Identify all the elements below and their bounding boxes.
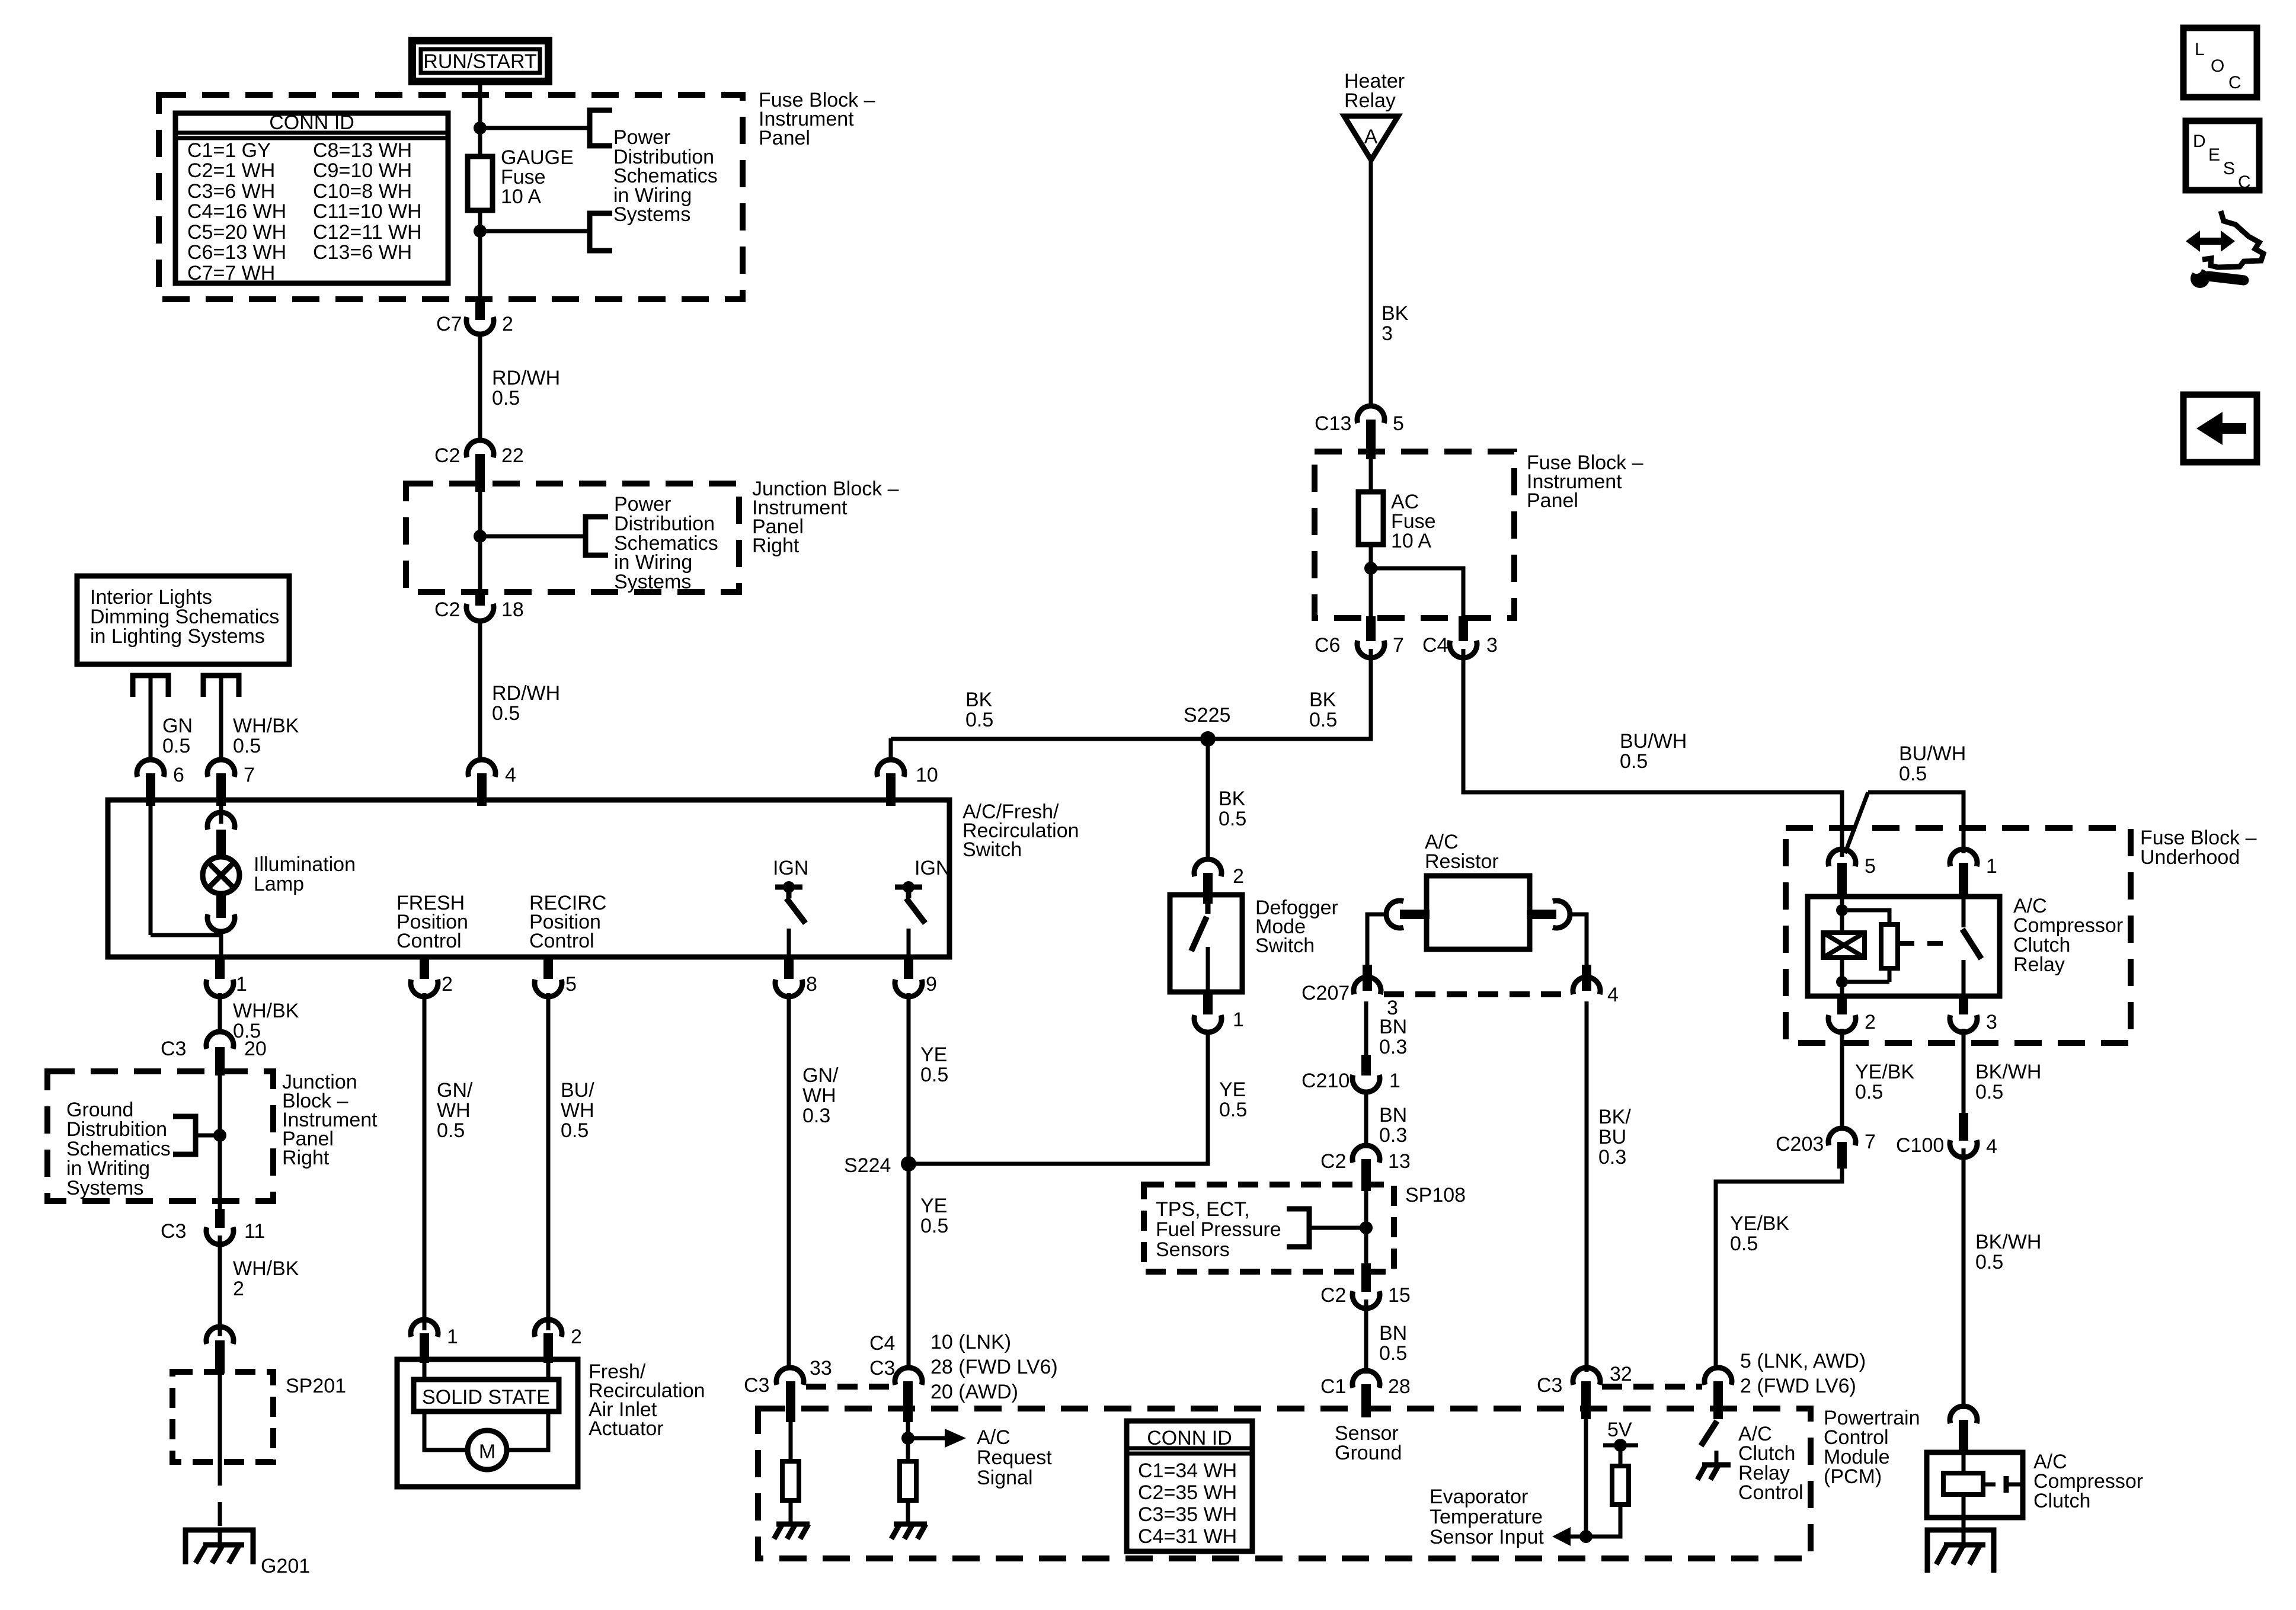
wire S224 to defogger pin 1 (909, 1031, 1208, 1164)
connector C3 pin 11 (206, 1227, 234, 1244)
connector pin 7 (207, 760, 235, 777)
junction S225 (1200, 731, 1216, 747)
svg-text:BU/WH: BU/WH (1620, 730, 1687, 753)
wire BK 0.5 defogger from S225 (1206, 739, 1210, 859)
heater relay triangle A (1344, 116, 1398, 160)
svg-text:2: 2 (502, 313, 513, 335)
svg-text:WH/BK: WH/BK (233, 1000, 299, 1022)
stub above pin 4 (1582, 965, 1591, 991)
svg-text:BK: BK (1309, 689, 1336, 711)
connector C100 pin 4 (1950, 1140, 1977, 1157)
svg-text:2: 2 (1865, 1011, 1876, 1033)
svg-text:Systems: Systems (614, 571, 691, 593)
svg-text:G201: G201 (261, 1555, 310, 1577)
svg-text:4: 4 (1607, 984, 1619, 1006)
svg-text:C6: C6 (1315, 634, 1340, 657)
svg-text:C3=35 WH: C3=35 WH (1138, 1503, 1237, 1526)
svg-text:28: 28 (1388, 1375, 1411, 1398)
svg-text:C1=1 GY: C1=1 GY (187, 139, 271, 162)
TPS dashed box (1144, 1185, 1394, 1272)
svg-text:0.5: 0.5 (1730, 1233, 1758, 1255)
SOLID STATE box (414, 1379, 559, 1411)
dashed jumper C207 to pin 4 (1384, 991, 1571, 997)
svg-text:C3: C3 (744, 1374, 769, 1397)
svg-text:Temperature: Temperature (1430, 1506, 1543, 1528)
svg-text:5: 5 (565, 973, 577, 996)
svg-text:C5=20 WH: C5=20 WH (187, 221, 286, 244)
svg-text:0.5: 0.5 (437, 1119, 465, 1142)
icon car adjust with wrench (2186, 211, 2263, 288)
diagonal jog pin5 to second BU/WH run (1845, 792, 1868, 853)
A/C request arrow (908, 1429, 966, 1448)
node RUN/START (412, 41, 549, 82)
svg-text:WH/BK: WH/BK (233, 715, 299, 737)
stub above C100 (1959, 1113, 1968, 1141)
svg-text:C11=10 WH: C11=10 WH (313, 200, 422, 223)
svg-text:C2=1 WH: C2=1 WH (187, 159, 275, 182)
svg-text:Switch: Switch (962, 838, 1022, 861)
svg-text:M: M (479, 1441, 495, 1463)
evap arrow (1552, 1527, 1586, 1546)
dashed jumper C3 32 to PCM pin (1602, 1384, 1702, 1390)
svg-text:Resistor: Resistor (1425, 850, 1499, 873)
svg-text:0.5: 0.5 (965, 709, 993, 731)
svg-text:0.5: 0.5 (1899, 763, 1927, 785)
svg-text:10 A: 10 A (501, 185, 541, 208)
wire BN 0.5 (1364, 1299, 1368, 1374)
wire BK/WH 0.5 down to clutch (1962, 1148, 1966, 1409)
svg-text:7: 7 (1393, 634, 1404, 657)
connector C13 pin 5 (1357, 406, 1384, 423)
svg-text:BK/: BK/ (1598, 1106, 1631, 1128)
svg-text:Underhood: Underhood (2140, 846, 2240, 869)
svg-text:10 (LNK): 10 (LNK) (930, 1331, 1011, 1353)
svg-text:33: 33 (810, 1357, 832, 1379)
stub below PCM clutch pin (1713, 1381, 1723, 1419)
svg-text:(PCM): (PCM) (1824, 1465, 1882, 1488)
IGN switch 2 (895, 857, 950, 957)
svg-text:Sensors: Sensors (1156, 1238, 1230, 1261)
dashed jumper C3 33 to C4/C3 (806, 1384, 892, 1390)
A/C resistor right pin arc (1553, 901, 1570, 928)
A/C clutch relay control switch (1701, 1421, 1717, 1446)
junction dot AC fuse (1364, 562, 1377, 575)
fuse block underhood dashed box (1786, 828, 2131, 1043)
stub below C2 22 (475, 454, 485, 492)
svg-text:BK/WH: BK/WH (1975, 1231, 2041, 1253)
connector C4/C3 at pin9 bottom (895, 1368, 922, 1385)
relay resistor (1881, 924, 1898, 968)
lamp bottom arc (207, 914, 235, 932)
svg-text:0.5: 0.5 (920, 1215, 948, 1237)
svg-text:S225: S225 (1184, 704, 1230, 726)
svg-text:9: 9 (926, 973, 937, 996)
svg-text:20: 20 (244, 1038, 267, 1060)
relay coil box with X (1823, 933, 1865, 958)
resistor PCM 2 (900, 1461, 916, 1500)
junction dot in junction block (474, 530, 487, 543)
svg-text:Relay: Relay (2013, 953, 2065, 976)
stub below C13 5 (1366, 420, 1376, 459)
svg-text:0.5: 0.5 (1219, 808, 1246, 830)
svg-text:SOLID STATE: SOLID STATE (422, 1386, 550, 1409)
stub above C207 (1363, 965, 1372, 991)
svg-text:TPS, ECT,: TPS, ECT, (1156, 1198, 1250, 1221)
svg-text:C4=16 WH: C4=16 WH (187, 200, 286, 223)
svg-text:Panel: Panel (1527, 489, 1578, 512)
svg-text:SP201: SP201 (286, 1375, 346, 1397)
interior lights box (77, 576, 289, 664)
connector relay pin 1 (1950, 849, 1977, 866)
svg-text:RD/WH: RD/WH (492, 367, 560, 389)
connector C7 pin 2 (466, 317, 494, 334)
actuator outer box (397, 1359, 578, 1487)
wire YE/BK jog left down to PCM (1716, 1164, 1842, 1366)
stub defogger pin 1 (1203, 992, 1213, 1014)
svg-text:10: 10 (916, 764, 938, 786)
svg-text:IGN: IGN (773, 857, 808, 879)
svg-text:O: O (2211, 56, 2224, 76)
defogger mode switch box (1170, 895, 1242, 992)
gauge fuse 10A (468, 156, 493, 210)
svg-text:0.5: 0.5 (1975, 1081, 2003, 1103)
connector defogger pin 2 (1194, 859, 1221, 876)
wire through ground dist box (218, 1071, 222, 1216)
svg-text:Request: Request (977, 1446, 1052, 1469)
svg-text:Panel: Panel (759, 127, 810, 149)
svg-text:0.5: 0.5 (561, 1119, 589, 1142)
svg-text:0.5: 0.5 (1855, 1081, 1883, 1103)
svg-text:L: L (2195, 40, 2205, 59)
svg-text:1: 1 (1389, 1070, 1400, 1092)
junction dot SP108 (1360, 1221, 1373, 1234)
svg-text:C3: C3 (869, 1357, 895, 1379)
svg-text:YE: YE (1219, 1078, 1246, 1101)
svg-text:0.5: 0.5 (1219, 1099, 1247, 1121)
wire C207 up to resistor (1367, 914, 1387, 978)
wire BN 0.3 C207 to C210 (1364, 1001, 1368, 1067)
wire BU/WH 0.5 pin5 to actuator (546, 993, 551, 1330)
pin 10 wire from BK line (889, 738, 893, 761)
svg-text:SP108: SP108 (1405, 1184, 1466, 1206)
connector pin 4 resistor (1573, 977, 1600, 994)
svg-text:Actuator: Actuator (589, 1417, 664, 1440)
svg-text:C: C (2238, 172, 2251, 192)
wire through TPS box (1364, 1188, 1368, 1268)
stub pin 2 below box (420, 957, 429, 979)
svg-text:0.5: 0.5 (1975, 1251, 2003, 1273)
wire through SP201 (218, 1374, 222, 1462)
connector C203 pin 7 (1828, 1128, 1856, 1145)
wire right pin down to pin 4 (1569, 914, 1587, 978)
svg-text:C12=11 WH: C12=11 WH (313, 221, 422, 244)
svg-text:C7=7 WH: C7=7 WH (187, 262, 275, 284)
connector pin 4 of switch (468, 760, 495, 777)
ground clutch (1927, 1530, 1994, 1573)
svg-text:2: 2 (233, 1278, 244, 1300)
svg-text:5: 5 (1865, 855, 1876, 878)
connector pin 10 (877, 760, 904, 777)
connector C207 pin 3 (1354, 977, 1381, 994)
junction dot evap (1579, 1530, 1593, 1543)
svg-text:in Lighting Systems: in Lighting Systems (90, 625, 265, 648)
svg-text:Ground: Ground (1335, 1442, 1402, 1464)
reference bracket lower (Power Distribution) (590, 213, 612, 251)
svg-text:20 (AWD): 20 (AWD) (930, 1381, 1018, 1403)
svg-text:6: 6 (173, 764, 184, 786)
svg-text:Relay: Relay (1344, 89, 1396, 112)
svg-text:0.5: 0.5 (1620, 750, 1648, 773)
svg-text:4: 4 (1986, 1135, 1997, 1158)
fuse block instrument panel 2 dashed box (1315, 452, 1514, 618)
wire resistor to evap line (1586, 1505, 1620, 1537)
connector C2 pin 15 (1352, 1291, 1380, 1308)
svg-text:5V: 5V (1607, 1419, 1632, 1441)
svg-text:CONN ID: CONN ID (269, 111, 354, 134)
wires pins into solid state (423, 1359, 427, 1379)
junction dot top (1836, 904, 1848, 916)
svg-text:4: 4 (505, 764, 516, 786)
icon LOC box (2183, 28, 2257, 97)
resistor 5V (1612, 1466, 1629, 1505)
svg-text:1: 1 (1986, 855, 1997, 878)
svg-text:GN: GN (162, 715, 193, 737)
svg-text:GN/: GN/ (437, 1079, 473, 1102)
svg-text:BK: BK (965, 689, 993, 711)
wire to resistor 2 (906, 1422, 910, 1461)
svg-text:0.3: 0.3 (1379, 1124, 1407, 1147)
svg-text:Switch: Switch (1255, 934, 1315, 957)
stub into C3 11 (215, 1209, 225, 1228)
stub below C4/C3 (903, 1381, 913, 1422)
svg-text:RUN/START: RUN/START (423, 50, 536, 73)
svg-text:Signal: Signal (977, 1467, 1033, 1489)
svg-text:Lamp: Lamp (254, 873, 304, 895)
svg-text:A/C: A/C (977, 1426, 1011, 1449)
stub below C203 (1837, 1142, 1847, 1169)
5V supply bar (1603, 1443, 1638, 1448)
svg-text:C2=35 WH: C2=35 WH (1138, 1481, 1237, 1504)
ground G201 (186, 1530, 253, 1564)
junction dot 5V (1614, 1439, 1627, 1452)
svg-text:C4: C4 (869, 1332, 895, 1355)
svg-text:13: 13 (1388, 1150, 1411, 1173)
svg-text:C6=13 WH: C6=13 WH (187, 241, 286, 264)
relay box (1808, 897, 2000, 996)
junction dot ground dist (213, 1129, 226, 1142)
ground PCM 2 (891, 1524, 927, 1539)
wire GN/WH 0.5 pin2 to actuator (423, 993, 427, 1330)
svg-text:RD/WH: RD/WH (492, 682, 560, 705)
wire dot to bracket (196, 1134, 220, 1138)
svg-text:C4: C4 (1422, 634, 1448, 657)
svg-text:C10=8 WH: C10=8 WH (313, 180, 412, 203)
svg-text:WH: WH (437, 1099, 471, 1122)
AC fuse 10A (1358, 492, 1383, 545)
clutch internals (1943, 1452, 2023, 1518)
wire RD/WH 0.5 (478, 333, 482, 441)
svg-text:C100: C100 (1896, 1134, 1944, 1157)
wire YE/BK 0.5 pin2 to C203 (1840, 1029, 1844, 1127)
stub pin 10 into box (886, 773, 896, 806)
connector PCM clutch control pin (1705, 1368, 1732, 1385)
svg-text:C1=34 WH: C1=34 WH (1138, 1459, 1237, 1482)
svg-text:2: 2 (1233, 865, 1244, 888)
wire RD/WH 0.5 second (478, 620, 482, 761)
relay coil branch (1840, 897, 1844, 996)
svg-text:0.5: 0.5 (233, 735, 261, 757)
svg-text:C3: C3 (1537, 1374, 1562, 1397)
dashed wire to G201 (218, 1462, 222, 1530)
stub pin 8 below box (784, 957, 794, 979)
wire pin7 to lamp (219, 806, 223, 824)
svg-text:0.5: 0.5 (1379, 1342, 1407, 1365)
svg-text:BU/WH: BU/WH (1899, 742, 1966, 765)
defogger switch blade (1205, 904, 1211, 914)
junction dot A/C request (901, 1432, 914, 1445)
lamp top stub (216, 830, 226, 859)
stub into clutch box (1959, 1420, 1968, 1455)
svg-text:Right: Right (282, 1147, 330, 1169)
svg-text:7: 7 (1865, 1131, 1876, 1153)
ground A/C clutch relay control (1697, 1465, 1731, 1480)
svg-text:GN/: GN/ (802, 1064, 839, 1087)
svg-text:C203: C203 (1776, 1133, 1824, 1156)
reference bracket junction block (586, 517, 608, 555)
reference bracket down right (203, 676, 239, 697)
connector C3 pin 32 (1573, 1368, 1600, 1385)
svg-text:10 A: 10 A (1391, 530, 1431, 552)
connector C2 pin 22 (466, 440, 494, 457)
reference bracket TPS (1287, 1209, 1309, 1247)
illumination lamp (203, 857, 239, 894)
connector pin 8 (775, 980, 802, 997)
stub into C4 3 (1459, 616, 1468, 641)
svg-text:0.5: 0.5 (1309, 709, 1337, 731)
wire C3 32 down to evap junction (1584, 1416, 1588, 1536)
svg-text:IGN: IGN (914, 857, 950, 879)
connector C4 pin 3 (1450, 641, 1477, 658)
connector pin 1 (206, 980, 234, 997)
connector pin 9 (895, 980, 922, 997)
stub below C3 32 (1581, 1381, 1591, 1419)
svg-text:C8=13 WH: C8=13 WH (313, 139, 412, 162)
svg-text:15: 15 (1388, 1284, 1411, 1307)
svg-text:C13=6 WH: C13=6 WH (313, 241, 412, 264)
wire BU/WH from C4 3 to underhood pin 5 (1463, 649, 1842, 857)
wire to resistor 1 (789, 1422, 793, 1461)
svg-text:A: A (1364, 126, 1378, 148)
svg-text:22: 22 (501, 444, 524, 467)
A/C resistor left stub (1400, 910, 1430, 919)
svg-text:8: 8 (806, 973, 817, 996)
wires solid state to motor (424, 1411, 468, 1450)
svg-text:Control: Control (1738, 1481, 1803, 1504)
junction S224 (901, 1156, 916, 1172)
stub into C2 18 (475, 590, 485, 606)
wire clutch to ground (1962, 1518, 1966, 1530)
stub pin 4 into switch box (477, 773, 487, 806)
stub actuator pin 1 (420, 1333, 429, 1363)
fuse block instrument panel dashed box (159, 95, 743, 299)
A/C/Fresh/Recirculation Switch box (108, 800, 949, 957)
stub relay pin 2 (1837, 996, 1847, 1014)
PCM dashed box (758, 1409, 1811, 1558)
wire BK/WH 0.5 pin3 to C100 (1962, 1029, 1966, 1117)
svg-text:BN: BN (1379, 1322, 1407, 1345)
svg-text:3: 3 (1986, 1011, 1997, 1033)
wire junction to bracket lower (480, 229, 590, 233)
wire WH/BK 0.5 (219, 678, 223, 761)
wire YE 0.5 pin9 to S224 (907, 993, 911, 1369)
connector C210 pin 1 (1352, 1075, 1380, 1092)
connector pin 2 (411, 980, 438, 997)
A/C resistor left pin arc (1386, 901, 1403, 928)
svg-text:1: 1 (1233, 1009, 1244, 1031)
svg-text:WH: WH (561, 1099, 594, 1122)
svg-text:BU: BU (1598, 1126, 1626, 1148)
svg-text:S224: S224 (844, 1154, 891, 1177)
connector actuator pin 1 (411, 1320, 438, 1337)
stub pin 1 below box (215, 957, 225, 979)
svg-text:2: 2 (571, 1326, 582, 1348)
stub pin 6 into switch box (146, 773, 155, 806)
connector relay pin 3 (1950, 1015, 1977, 1032)
svg-text:WH: WH (802, 1084, 836, 1107)
svg-text:18: 18 (501, 598, 524, 621)
svg-text:0.5: 0.5 (492, 387, 520, 409)
wire BK 0.5 from C6 7 to S225 line (891, 649, 1371, 739)
connector C2 pin 18 (466, 604, 494, 621)
resistor PCM 1 (782, 1461, 799, 1500)
wire resistor 1 to ground (789, 1500, 793, 1524)
wire through junction block (478, 486, 482, 594)
svg-text:0.5: 0.5 (492, 702, 520, 725)
connector defogger pin 1 (1194, 1015, 1221, 1032)
wire bracket to SP108 (1309, 1226, 1366, 1230)
svg-text:Control: Control (396, 930, 462, 952)
svg-text:D: D (2193, 132, 2206, 151)
svg-text:Systems: Systems (66, 1177, 143, 1199)
connector relay pin 5 (1828, 849, 1856, 866)
stub below C3 20 (215, 1047, 225, 1076)
svg-text:C2: C2 (434, 598, 460, 621)
svg-text:1: 1 (447, 1326, 458, 1348)
svg-text:C: C (2228, 73, 2241, 92)
stub pin 5 below box (543, 957, 553, 979)
reference bracket upper (Power Distribution) (590, 110, 612, 146)
relay switch blade (1962, 897, 1966, 927)
svg-text:2 (FWD LV6): 2 (FWD LV6) (1740, 1375, 1856, 1397)
svg-text:Clutch: Clutch (2033, 1490, 2090, 1512)
CONN ID table PCM (1127, 1421, 1252, 1551)
stub pin 7 into switch box (216, 773, 226, 806)
junction dot bottom (1836, 976, 1848, 988)
svg-text:Fuel Pressure: Fuel Pressure (1156, 1218, 1281, 1241)
svg-text:BK: BK (1382, 302, 1409, 325)
svg-text:32: 32 (1610, 1363, 1632, 1385)
svg-text:C207: C207 (1302, 982, 1350, 1004)
svg-text:5 (LNK, AWD): 5 (LNK, AWD) (1740, 1350, 1866, 1372)
svg-text:0.3: 0.3 (1379, 1036, 1407, 1058)
svg-text:28 (FWD LV6): 28 (FWD LV6) (930, 1356, 1058, 1378)
wire GN/WH 0.3 pin8 down (787, 993, 791, 1369)
wire BK/BU 0.3 pin4 down to C3 32 (1585, 1001, 1589, 1372)
svg-text:0.5: 0.5 (920, 1064, 948, 1086)
connector clutch top (1950, 1406, 1977, 1423)
svg-text:YE: YE (920, 1044, 947, 1066)
reference bracket down left (133, 676, 168, 697)
